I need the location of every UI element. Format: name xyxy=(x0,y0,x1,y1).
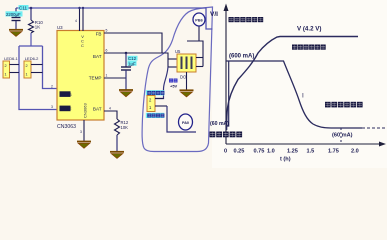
wire curve to battery+ xyxy=(155,67,168,99)
chart axes V/I vs t xyxy=(226,6,381,144)
wire battery- to PA0 xyxy=(167,106,196,132)
svg-text:DONE: DONE xyxy=(60,106,72,111)
wire GND pin xyxy=(83,120,85,141)
svg-text:1.0: 1.0 xyxy=(267,149,275,155)
svg-text:5: 5 xyxy=(106,29,108,33)
svg-text:1µF: 1µF xyxy=(128,61,136,66)
svg-text:V/I: V/I xyxy=(210,11,218,18)
svg-text:0.25: 0.25 xyxy=(234,149,245,155)
svg-text:1: 1 xyxy=(26,73,28,77)
label input +5V xyxy=(169,79,178,83)
svg-text:2: 2 xyxy=(5,64,7,68)
wire top +5V rail xyxy=(16,8,213,29)
capacitor C12 xyxy=(121,53,138,90)
LED D2 xyxy=(24,56,43,78)
svg-text:1K: 1K xyxy=(35,25,40,30)
svg-text:4: 4 xyxy=(75,19,77,23)
battery blob outline xyxy=(142,7,212,152)
svg-text:PB6: PB6 xyxy=(195,19,202,23)
svg-text:(600 mA): (600 mA) xyxy=(229,54,254,60)
svg-text:LED6-1: LED6-1 xyxy=(4,56,18,61)
svg-text:10K: 10K xyxy=(121,125,129,130)
svg-text:I: I xyxy=(302,93,304,100)
ground (R12) xyxy=(110,152,124,159)
wire FB xyxy=(104,33,162,53)
curve I xyxy=(226,61,229,126)
svg-text:1.5: 1.5 xyxy=(307,149,315,155)
svg-text:+5V: +5V xyxy=(170,84,178,89)
svg-text:2.0: 2.0 xyxy=(351,149,359,155)
wire LED feed bar xyxy=(19,45,43,47)
wire DO xyxy=(186,72,188,90)
svg-text:3: 3 xyxy=(51,105,53,109)
protection IC U5 xyxy=(175,49,203,72)
svg-text:C: C xyxy=(81,43,84,48)
wire BAT xyxy=(104,52,162,54)
node VIN/R10 junction xyxy=(30,7,33,10)
ground (IC) xyxy=(77,142,91,149)
y-axis arrowhead xyxy=(224,4,229,12)
svg-text:BAT: BAT xyxy=(93,107,102,112)
svg-text:1: 1 xyxy=(106,74,108,78)
node BAT/C12 xyxy=(125,52,128,55)
wire VCC pins xyxy=(79,8,81,31)
svg-text:U5: U5 xyxy=(175,49,181,54)
svg-text:C11: C11 xyxy=(19,6,28,11)
wire to DONE xyxy=(19,46,57,110)
svg-text:BAT: BAT xyxy=(93,54,102,59)
x-axis arrowhead xyxy=(379,142,386,147)
svg-text:CN3063: CN3063 xyxy=(83,103,88,118)
resistor R12 xyxy=(115,119,129,151)
svg-text:2: 2 xyxy=(26,64,28,68)
svg-text:V (4.2 V): V (4.2 V) xyxy=(297,26,321,33)
ground (C12) xyxy=(119,90,133,97)
wire TEMP xyxy=(104,77,126,79)
node PB6 xyxy=(193,13,205,26)
node PB6 wire xyxy=(187,26,199,41)
svg-text:CHRG: CHRG xyxy=(60,92,72,97)
svg-text:t (h): t (h) xyxy=(280,157,291,163)
op charger IC U3 CN3063 xyxy=(57,25,104,120)
svg-text:FB: FB xyxy=(96,32,102,37)
capacitor C11 xyxy=(6,5,29,29)
wire to protection xyxy=(162,53,168,59)
svg-text:4: 4 xyxy=(109,107,111,111)
svg-text:0: 0 xyxy=(224,149,227,155)
svg-text:LED6-2: LED6-2 xyxy=(25,56,39,61)
wire to CHRG xyxy=(43,46,58,89)
svg-text:1.25: 1.25 xyxy=(287,149,298,155)
svg-text:(60 mA): (60 mA) xyxy=(332,133,353,139)
svg-text:1.75: 1.75 xyxy=(328,149,339,155)
x-axis tick labels xyxy=(224,149,359,163)
svg-text:C12: C12 xyxy=(128,56,137,61)
svg-text:2200µF: 2200µF xyxy=(6,12,21,17)
svg-text:2: 2 xyxy=(51,85,53,89)
svg-text:(60 mA): (60 mA) xyxy=(210,121,229,127)
node PA0 xyxy=(179,114,193,130)
svg-text:PA0: PA0 xyxy=(182,121,189,125)
curve V xyxy=(227,37,358,131)
svg-text:6: 6 xyxy=(106,49,108,53)
ground (C11) xyxy=(9,30,23,37)
svg-text:3: 3 xyxy=(80,130,82,134)
resistor R10 xyxy=(29,8,44,46)
ground (DO) xyxy=(180,90,194,97)
wire BAT lower xyxy=(104,111,117,119)
svg-text:0.75: 0.75 xyxy=(254,149,265,155)
svg-text:CN3063: CN3063 xyxy=(57,124,76,130)
connector J1 battery xyxy=(146,90,167,118)
svg-text:TEMP: TEMP xyxy=(89,76,102,81)
svg-text:1: 1 xyxy=(5,73,7,77)
LED D1 xyxy=(3,56,19,78)
svg-text:U3: U3 xyxy=(57,25,63,30)
